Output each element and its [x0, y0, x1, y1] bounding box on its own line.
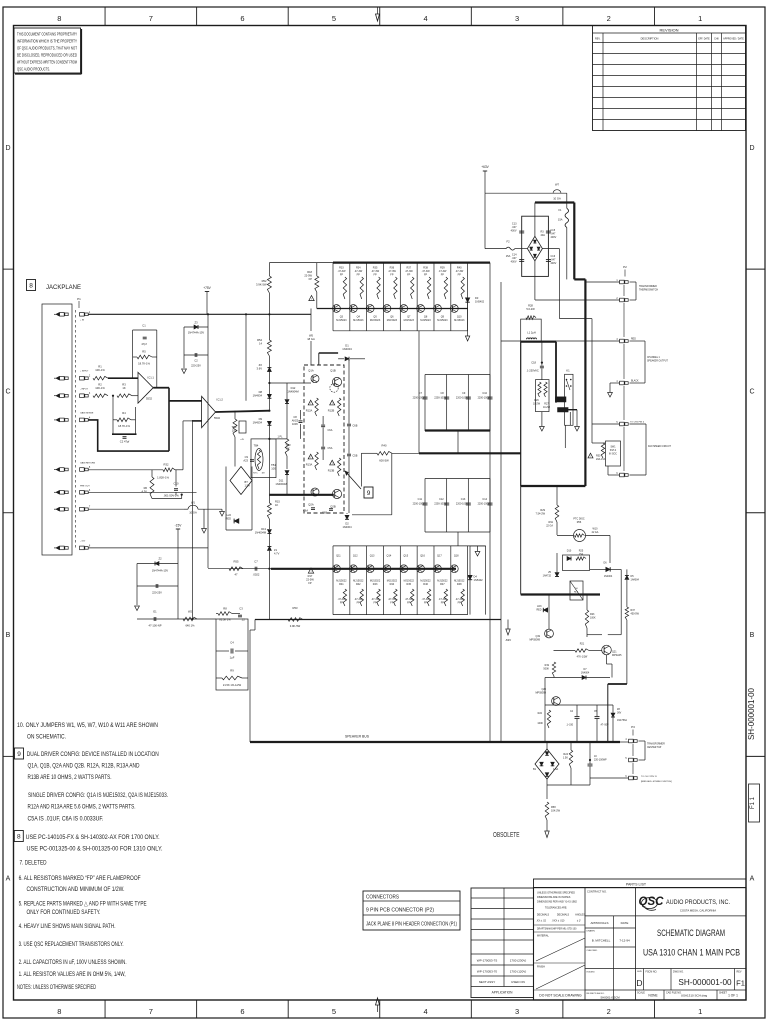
svg-text:1N4004: 1N4004 [631, 578, 640, 581]
tolerance column signature slashes [536, 938, 585, 961]
svg-text:CAD FILE NO.: CAD FILE NO. [666, 992, 682, 995]
capacitor C18 [541, 362, 543, 364]
power -63V arrow [507, 620, 509, 630]
relay K1 contact bar lower [558, 408, 569, 413]
wire capbank1 to rail [457, 431, 459, 453]
jack J6 [60, 491, 65, 495]
svg-text:5. REPLACE PARTS MARKED △ AND: 5. REPLACE PARTS MARKED △ AND FP WITH SA… [19, 901, 147, 908]
jack J1 [60, 313, 65, 317]
svg-text:8: 8 [17, 834, 21, 841]
svg-text:R2: R2 [98, 383, 102, 387]
svg-text:.12: .12 [241, 618, 245, 622]
bridge B1 [535, 749, 559, 779]
wire R1 to op-amp (heavy) [108, 377, 138, 379]
svg-text:OF QSC AUDIO PRODUCTS, THAT MA: OF QSC AUDIO PRODUCTS, THAT MAY NOT [17, 46, 77, 51]
svg-text:IC1:2: IC1:2 [217, 398, 224, 402]
svg-text:AN22: AN22 [292, 418, 299, 422]
svg-text:R47: R47 [440, 583, 445, 586]
svg-text:NOTES: UNLESS OTHERWISE SPECIF: NOTES: UNLESS OTHERWISE SPECIFIED [17, 984, 96, 991]
svg-text:1N4004: 1N4004 [604, 575, 613, 578]
capacitor C6B2 [329, 508, 333, 510]
svg-text:450-5W: 450-5W [631, 612, 640, 615]
capacitor C6c [589, 759, 591, 761]
capacitor C6B [347, 423, 351, 425]
svg-text:AUDIO PRODUCTS, INC.: AUDIO PRODUCTS, INC. [666, 899, 730, 906]
wire R4 box bottom (heavy) [112, 433, 137, 435]
svg-text:BE DISCLOSED, REPRODUCED OR US: BE DISCLOSED, REPRODUCED OR USED [17, 53, 77, 58]
svg-text:SW1: SW1 [611, 447, 617, 449]
svg-text:R45: R45 [406, 583, 411, 586]
svg-text:ZX: ZX [259, 363, 263, 367]
capacitor C2 lower [137, 585, 178, 587]
wire jack7 [89, 508, 185, 510]
svg-text:D8: D8 [259, 390, 263, 394]
feedback divider box [216, 619, 248, 690]
svg-text:FP: FP [424, 273, 428, 276]
transistor Q2A [311, 488, 319, 496]
svg-text:1N4934: 1N4934 [253, 393, 263, 397]
resistor R58 [545, 802, 549, 820]
wire x=208 rail down [207, 314, 209, 568]
svg-text:C5B: C5B [353, 455, 358, 458]
svg-text:INFORMATION WHICH IS THE PROPE: INFORMATION WHICH IS THE PROPERTY [17, 39, 77, 44]
svg-text:1. ALL RESISTOR VALUES ARE IN: 1. ALL RESISTOR VALUES ARE IN OHM 5%, 1/… [19, 971, 126, 978]
svg-text:R44: R44 [390, 583, 395, 586]
svg-text:2: 2 [607, 14, 611, 23]
svg-text:MJ15023: MJ15023 [387, 319, 398, 322]
svg-text:OBSOLETE: OBSOLETE [493, 830, 520, 839]
svg-text:10K-1%: 10K-1% [95, 368, 105, 372]
svg-text:A23: A23 [243, 458, 248, 462]
svg-text:DRAFTSMANSHIP PER MIL-STD-100: DRAFTSMANSHIP PER MIL-STD-100 [537, 928, 577, 931]
svg-text:SPEAKER OUTPUT: SPEAKER OUTPUT [647, 359, 669, 362]
svg-text:D3: D3 [475, 296, 479, 300]
svg-text:2: 2 [607, 1007, 611, 1016]
svg-text:Q1B: Q1B [330, 369, 336, 373]
jack J8 [60, 546, 65, 550]
jackplane flag 8 [27, 280, 36, 291]
svg-text:TO CH 2 PIN 11: TO CH 2 PIN 11 [641, 776, 658, 778]
svg-text:3.9K-5W: 3.9K-5W [256, 282, 267, 286]
svg-text:-15V: -15V [175, 524, 183, 528]
wire protect cluster rows [545, 704, 613, 706]
svg-text:TRANSFORMER: TRANSFORMER [647, 743, 665, 746]
svg-text:USA1310 SCH.dwg: USA1310 SCH.dwg [681, 994, 708, 998]
svg-text:2200-100V: 2200-100V [434, 397, 446, 400]
svg-text:MJ15023: MJ15023 [404, 319, 415, 322]
svg-text:7. DELETED: 7. DELETED [20, 860, 47, 867]
wire x=520 vertical [520, 342, 522, 486]
wire driver emitter rail heavy [269, 494, 333, 496]
svg-text:3: 3 [515, 1007, 519, 1016]
svg-text:R52: R52 [262, 279, 267, 283]
svg-text:20A-15A: 20A-15A [596, 458, 606, 461]
svg-text:USED ON: USED ON [511, 980, 525, 984]
svg-text:Q1A, Q1B, Q2A AND Q2B. R12A,: Q1A, Q1B, Q2A AND Q2B. R12A, R12B, R13A … [28, 763, 140, 770]
wire K1 elbow [568, 409, 577, 411]
svg-text:C: C [5, 388, 10, 395]
svg-text:FINISH: FINISH [537, 966, 545, 969]
svg-text:GAIN RETURN: GAIN RETURN [80, 462, 95, 465]
wire heavy top elbow [535, 201, 574, 203]
jackplane header column line [75, 310, 77, 550]
svg-text:R12A AND R13A ARE 5.6 OHMS, 2: R12A AND R13A ARE 5.6 OHMS, 2 WATTS PART… [28, 803, 136, 810]
svg-text:D1: D1 [345, 344, 349, 348]
svg-text:C10: C10 [482, 392, 487, 395]
svg-text:DIMENSIONS ARE IN INCHES: DIMENSIONS ARE IN INCHES [537, 896, 571, 899]
svg-text:W5: W5 [309, 334, 314, 338]
svg-text:1N4534: 1N4534 [253, 420, 263, 424]
svg-text:TB1: TB1 [271, 463, 276, 467]
flag 9 box [364, 487, 373, 498]
svg-text:22 GA: 22 GA [592, 531, 599, 534]
svg-text:1N4004: 1N4004 [581, 671, 590, 674]
switch SW1 cluster [591, 319, 593, 443]
svg-text:DATE: DATE [621, 921, 629, 925]
svg-text:SCALE: SCALE [637, 992, 645, 995]
svg-text:FP: FP [308, 581, 312, 585]
capacitor C12 [444, 502, 449, 504]
title block separator [636, 915, 747, 917]
parts list bar [534, 879, 747, 888]
wire y=619 feedback rail [137, 618, 216, 620]
transistor Q6 [383, 305, 391, 313]
svg-text:-63V: -63V [505, 638, 511, 642]
svg-text:C9: C9 [245, 455, 249, 459]
svg-text:FP: FP [309, 277, 313, 281]
capacitor C2 [184, 354, 208, 356]
wire fan bracket [630, 423, 647, 425]
svg-text:RE REV'D AS NO.: RE REV'D AS NO. [587, 992, 605, 995]
svg-text:FP: FP [373, 273, 377, 276]
wire bridge right out [542, 248, 559, 250]
svg-text:1.5A: 1.5A [245, 483, 251, 487]
svg-text:- 15V: - 15V [80, 541, 86, 543]
note flag 8 [14, 831, 23, 842]
L1 box [521, 319, 542, 342]
capacitor C8 [444, 396, 449, 398]
svg-text:FP: FP [441, 273, 445, 276]
svg-text:7-12-94: 7-12-94 [619, 939, 630, 943]
svg-text:Q1A: Q1A [308, 369, 314, 373]
svg-text:FP: FP [390, 273, 394, 276]
svg-text:2. ALL CAPACITORS IN uF, 100V: 2. ALL CAPACITORS IN uF, 100V UNLESS SHO… [19, 959, 127, 966]
svg-text:D: D [636, 978, 642, 988]
svg-text:C10: C10 [174, 482, 179, 486]
svg-text:R46: R46 [423, 583, 428, 586]
capacitor bank C7-C10 [425, 374, 490, 376]
svg-text:Q2B: Q2B [330, 505, 336, 509]
svg-text:100: 100 [271, 466, 276, 470]
svg-text:4.7V: 4.7V [274, 551, 280, 555]
svg-text:8: 8 [57, 14, 61, 23]
zener Z3 [184, 326, 208, 328]
svg-text:C3: C3 [239, 607, 243, 611]
svg-text:ON SCHEMATIC.: ON SCHEMATIC. [27, 734, 66, 741]
svg-text:10K-2W: 10K-2W [551, 809, 561, 812]
approvals checked row [585, 968, 636, 970]
svg-text:1N5402: 1N5402 [475, 299, 485, 303]
wire heavy y=684 [608, 683, 627, 685]
svg-text:1N4004M: 1N4004M [287, 389, 298, 393]
svg-text:1 OF 1: 1 OF 1 [728, 994, 738, 998]
svg-text:MJ15023: MJ15023 [353, 319, 364, 322]
svg-text:- INPUT: - INPUT [80, 389, 89, 391]
svg-text:15A: 15A [579, 553, 584, 556]
svg-text:MJ15023: MJ15023 [437, 319, 448, 322]
svg-text:Q11: Q11 [336, 555, 341, 558]
wire L1 out heavy [521, 341, 556, 343]
svg-text:D4: D4 [474, 575, 478, 579]
svg-text:IC1:1: IC1:1 [148, 376, 155, 380]
svg-text:5: 5 [332, 14, 336, 23]
svg-text:15A: 15A [506, 254, 511, 258]
svg-text:A: A [6, 876, 11, 883]
svg-text:15A: 15A [558, 218, 563, 222]
svg-text:FP: FP [357, 273, 361, 276]
driver config dashed box [304, 365, 344, 513]
svg-text:1M: 1M [261, 473, 264, 475]
svg-text:FP: FP [373, 601, 377, 604]
svg-text:RED: RED [226, 516, 232, 520]
svg-text:2200-100V: 2200-100V [434, 503, 446, 506]
wire feedback to op-amp [191, 420, 193, 619]
resistor R27 [544, 382, 547, 397]
wire bridge bottom [534, 261, 536, 300]
wire P3 pin column [632, 744, 634, 756]
svg-text:7.54-2W: 7.54-2W [536, 512, 546, 515]
svg-text:1.5A: 1.5A [553, 768, 558, 771]
svg-text:C2 47pf: C2 47pf [120, 440, 130, 444]
wire bridge top vertex up [534, 203, 536, 237]
svg-text:1N4744A-15V: 1N4744A-15V [188, 331, 205, 335]
diode D2 [346, 513, 348, 514]
svg-text:Q17: Q17 [437, 555, 442, 558]
ground W1 mid [203, 509, 205, 528]
svg-text:1700 (120V): 1700 (120V) [510, 970, 527, 974]
svg-text:C8: C8 [293, 415, 297, 419]
svg-text:5: 5 [332, 1007, 336, 1016]
wire heavy y=486 [521, 485, 586, 487]
svg-text:DESCRIPTION: DESCRIPTION [641, 37, 659, 41]
svg-text:22-5W: 22-5W [306, 577, 314, 581]
svg-text:R18: R18 [307, 270, 312, 274]
svg-text:FP: FP [357, 601, 361, 604]
svg-text:EFF. DATE: EFF. DATE [698, 38, 710, 41]
svg-text:DO NOT SCALE DRAWING: DO NOT SCALE DRAWING [539, 994, 582, 998]
svg-text:JACKPLANE: JACKPLANE [46, 285, 81, 291]
wire lower rail y=619 [255, 619, 501, 621]
svg-text:1.5K: 1.5K [563, 756, 568, 759]
wire heavy x=585 [584, 279, 586, 486]
diamond BT1 [230, 467, 252, 495]
wire R3 to op-amp [132, 395, 138, 397]
ground K1 [575, 427, 580, 432]
svg-text:2200-100V: 2200-100V [456, 397, 468, 400]
svg-text:.47–50V: .47–50V [600, 725, 609, 727]
svg-text:R13B: R13B [328, 469, 335, 473]
svg-text:R13A: R13A [306, 463, 313, 467]
svg-text:1N5402: 1N5402 [474, 578, 484, 582]
svg-text:18.7K-1%: 18.7K-1% [118, 424, 130, 428]
svg-text:W1: W1 [191, 501, 196, 505]
svg-text:C6B: C6B [353, 425, 358, 428]
connectors table [363, 891, 460, 930]
op-amp IC1:2 [202, 396, 216, 427]
zone column ticks top [104, 7, 106, 26]
svg-text:MJ15023: MJ15023 [336, 319, 347, 322]
svg-text:220-25V: 220-25V [191, 364, 201, 368]
svg-text:TRANSFORMER: TRANSFORMER [639, 285, 657, 288]
svg-text:47-100-NP: 47-100-NP [149, 624, 162, 628]
resistor R13B [330, 460, 335, 465]
svg-text:FP: FP [390, 601, 394, 604]
output bank 1 grid [333, 330, 468, 332]
svg-text:R15: R15 [275, 500, 280, 504]
svg-text:22-5W: 22-5W [304, 273, 312, 277]
svg-text:FP: FP [458, 601, 462, 604]
resistor W2 [183, 617, 197, 621]
svg-text:8: 8 [57, 1007, 61, 1016]
svg-text:.1–330: .1–330 [566, 725, 574, 727]
svg-text:B: B [6, 632, 11, 639]
svg-text:UNLESS OTHERWISE SPECIFIED: UNLESS OTHERWISE SPECIFIED [537, 892, 575, 895]
svg-text:L22: L22 [227, 513, 232, 517]
svg-text:D9: D9 [259, 417, 263, 421]
svg-text:D12: D12 [291, 386, 296, 390]
svg-text:C5A IS .01UF, C6A IS 0.0033UF.: C5A IS .01UF, C6A IS 0.0033UF. [28, 816, 104, 823]
svg-text:R4: R4 [122, 411, 126, 415]
svg-text:MJ15023: MJ15023 [420, 319, 431, 322]
svg-text:D10: D10 [567, 550, 572, 553]
approvals issued row [585, 989, 636, 991]
revision table [593, 26, 746, 131]
svg-text:47K-1/2W: 47K-1/2W [577, 656, 588, 659]
svg-text:R12B: R12B [328, 409, 335, 413]
transistor Q8 [417, 305, 425, 313]
svg-text:CHK: CHK [714, 39, 719, 41]
svg-text:1: 1 [698, 14, 702, 23]
svg-text:47pf: 47pf [141, 342, 146, 346]
wire D2 loop [352, 514, 392, 516]
wire Q20 column [544, 678, 546, 743]
wire main signal path heavy L [89, 420, 170, 451]
svg-text:R13B ARE 10 OHMS, 2 WATTS PART: R13B ARE 10 OHMS, 2 WATTS PARTS. [28, 774, 112, 781]
svg-text:F1 1: F1 1 [750, 796, 756, 809]
svg-text:4: 4 [423, 14, 427, 23]
wire R40 left leg to flag [360, 453, 362, 486]
svg-text:BLACK: BLACK [631, 380, 639, 383]
wire bank1 emitter row [317, 308, 468, 310]
svg-text:QSC AUDIO PRODUCTS.: QSC AUDIO PRODUCTS. [17, 67, 50, 72]
capacitor bank C11-C14 [425, 478, 490, 480]
svg-text:Q13: Q13 [370, 555, 375, 558]
bridge rectifier R3 [527, 236, 542, 261]
capacitor C5A [321, 446, 325, 448]
svg-text:600-5W: 600-5W [379, 459, 389, 463]
arrow R58 down [545, 831, 549, 838]
wire bank2 emitter bus heavy [271, 568, 456, 570]
svg-text:400V: 400V [511, 229, 517, 232]
svg-text:7: 7 [149, 14, 153, 23]
qsc logo [639, 896, 665, 910]
jackplane outline [42, 304, 72, 555]
svg-text:SHEET: SHEET [719, 992, 728, 995]
svg-text:R9: R9 [230, 669, 234, 673]
arrow D3 down [465, 336, 469, 341]
output bank 2 grid [333, 545, 486, 547]
svg-text:JACK PLANE 8 PIN HEADER CONNEC: JACK PLANE 8 PIN HEADER CONNECTION (P1) [366, 922, 457, 928]
svg-text:1N4004: 1N4004 [342, 347, 352, 351]
approvals header [585, 927, 636, 929]
relay K1 contact bar upper [555, 397, 566, 402]
svg-text:22 GA: 22 GA [546, 524, 553, 527]
svg-text:R41: R41 [339, 583, 344, 586]
op-amp IC1:2 minus input heavy [192, 420, 201, 422]
svg-text:.001-50V-5%: .001-50V-5% [163, 494, 179, 498]
svg-text:ANGLES: ANGLES [575, 914, 585, 917]
svg-text:C12: C12 [439, 498, 444, 501]
svg-text:MJ15023: MJ15023 [454, 319, 465, 322]
svg-text:2200-100V: 2200-100V [456, 503, 468, 506]
svg-text:WITHOUT EXPRESS WRITTEN CONSEN: WITHOUT EXPRESS WRITTEN CONSENT FROM [17, 60, 77, 65]
svg-text:6. ALL RESISTORS MARKED “FP” A: 6. ALL RESISTORS MARKED “FP” ARE FLAMEPR… [19, 875, 141, 882]
svg-text:6: 6 [240, 14, 244, 23]
svg-text:4: 4 [423, 1007, 427, 1016]
svg-text:CENTER TAP: CENTER TAP [647, 746, 662, 749]
capacitor C9 [466, 396, 471, 398]
svg-text:MPS8099: MPS8099 [530, 638, 541, 641]
svg-text:± 1°: ± 1° [577, 920, 581, 923]
svg-text:C13: C13 [461, 498, 466, 501]
svg-text:B: B [750, 632, 755, 639]
svg-text:[BRIDGED–STEREO SWITCH]: [BRIDGED–STEREO SWITCH] [641, 781, 672, 783]
svg-text:PARTS LIST: PARTS LIST [626, 882, 647, 886]
node rail junction [245, 313, 247, 315]
jack J4 [60, 418, 65, 422]
svg-text:R42: R42 [356, 583, 361, 586]
svg-text:R22: R22 [538, 712, 543, 715]
svg-text:D: D [5, 145, 10, 152]
svg-text:APPROVED / DATE: APPROVED / DATE [723, 38, 744, 41]
svg-text:SST-4: SST-4 [610, 450, 617, 452]
svg-text:R21: R21 [580, 643, 585, 646]
proprietary notice box [14, 28, 81, 73]
svg-text:FP: FP [441, 601, 445, 604]
wire mid rail heavy y=453 [419, 452, 521, 454]
capacitor E1 [153, 617, 155, 621]
wire heavy x=556 drop [555, 342, 557, 403]
svg-text:R54: R54 [257, 338, 262, 342]
center fold marks [376, 14, 380, 21]
svg-text:K1: K1 [566, 369, 570, 373]
svg-text:C6A: C6A [303, 510, 308, 513]
wire driver base feed [269, 382, 311, 384]
transistor Q5 [366, 305, 374, 313]
svg-text:FSCM NO.: FSCM NO. [646, 971, 658, 974]
svg-text:R32: R32 [164, 462, 169, 466]
svg-text:MATERIAL: MATERIAL [537, 935, 549, 938]
capacitor C2b [123, 436, 127, 438]
svg-text:W7: W7 [555, 183, 560, 187]
svg-text:RLY: RLY [574, 591, 579, 593]
svg-text:SINGLE DRIVER CONFIG: Q1A IS M: SINGLE DRIVER CONFIG: Q1A IS MJE15032, Q… [28, 792, 168, 799]
svg-text:BT: BT [245, 480, 249, 484]
driver protect box [225, 467, 227, 531]
capacitor C14 [488, 502, 493, 504]
wire top rail heavy [333, 262, 490, 264]
svg-text:Q18: Q18 [454, 555, 459, 558]
